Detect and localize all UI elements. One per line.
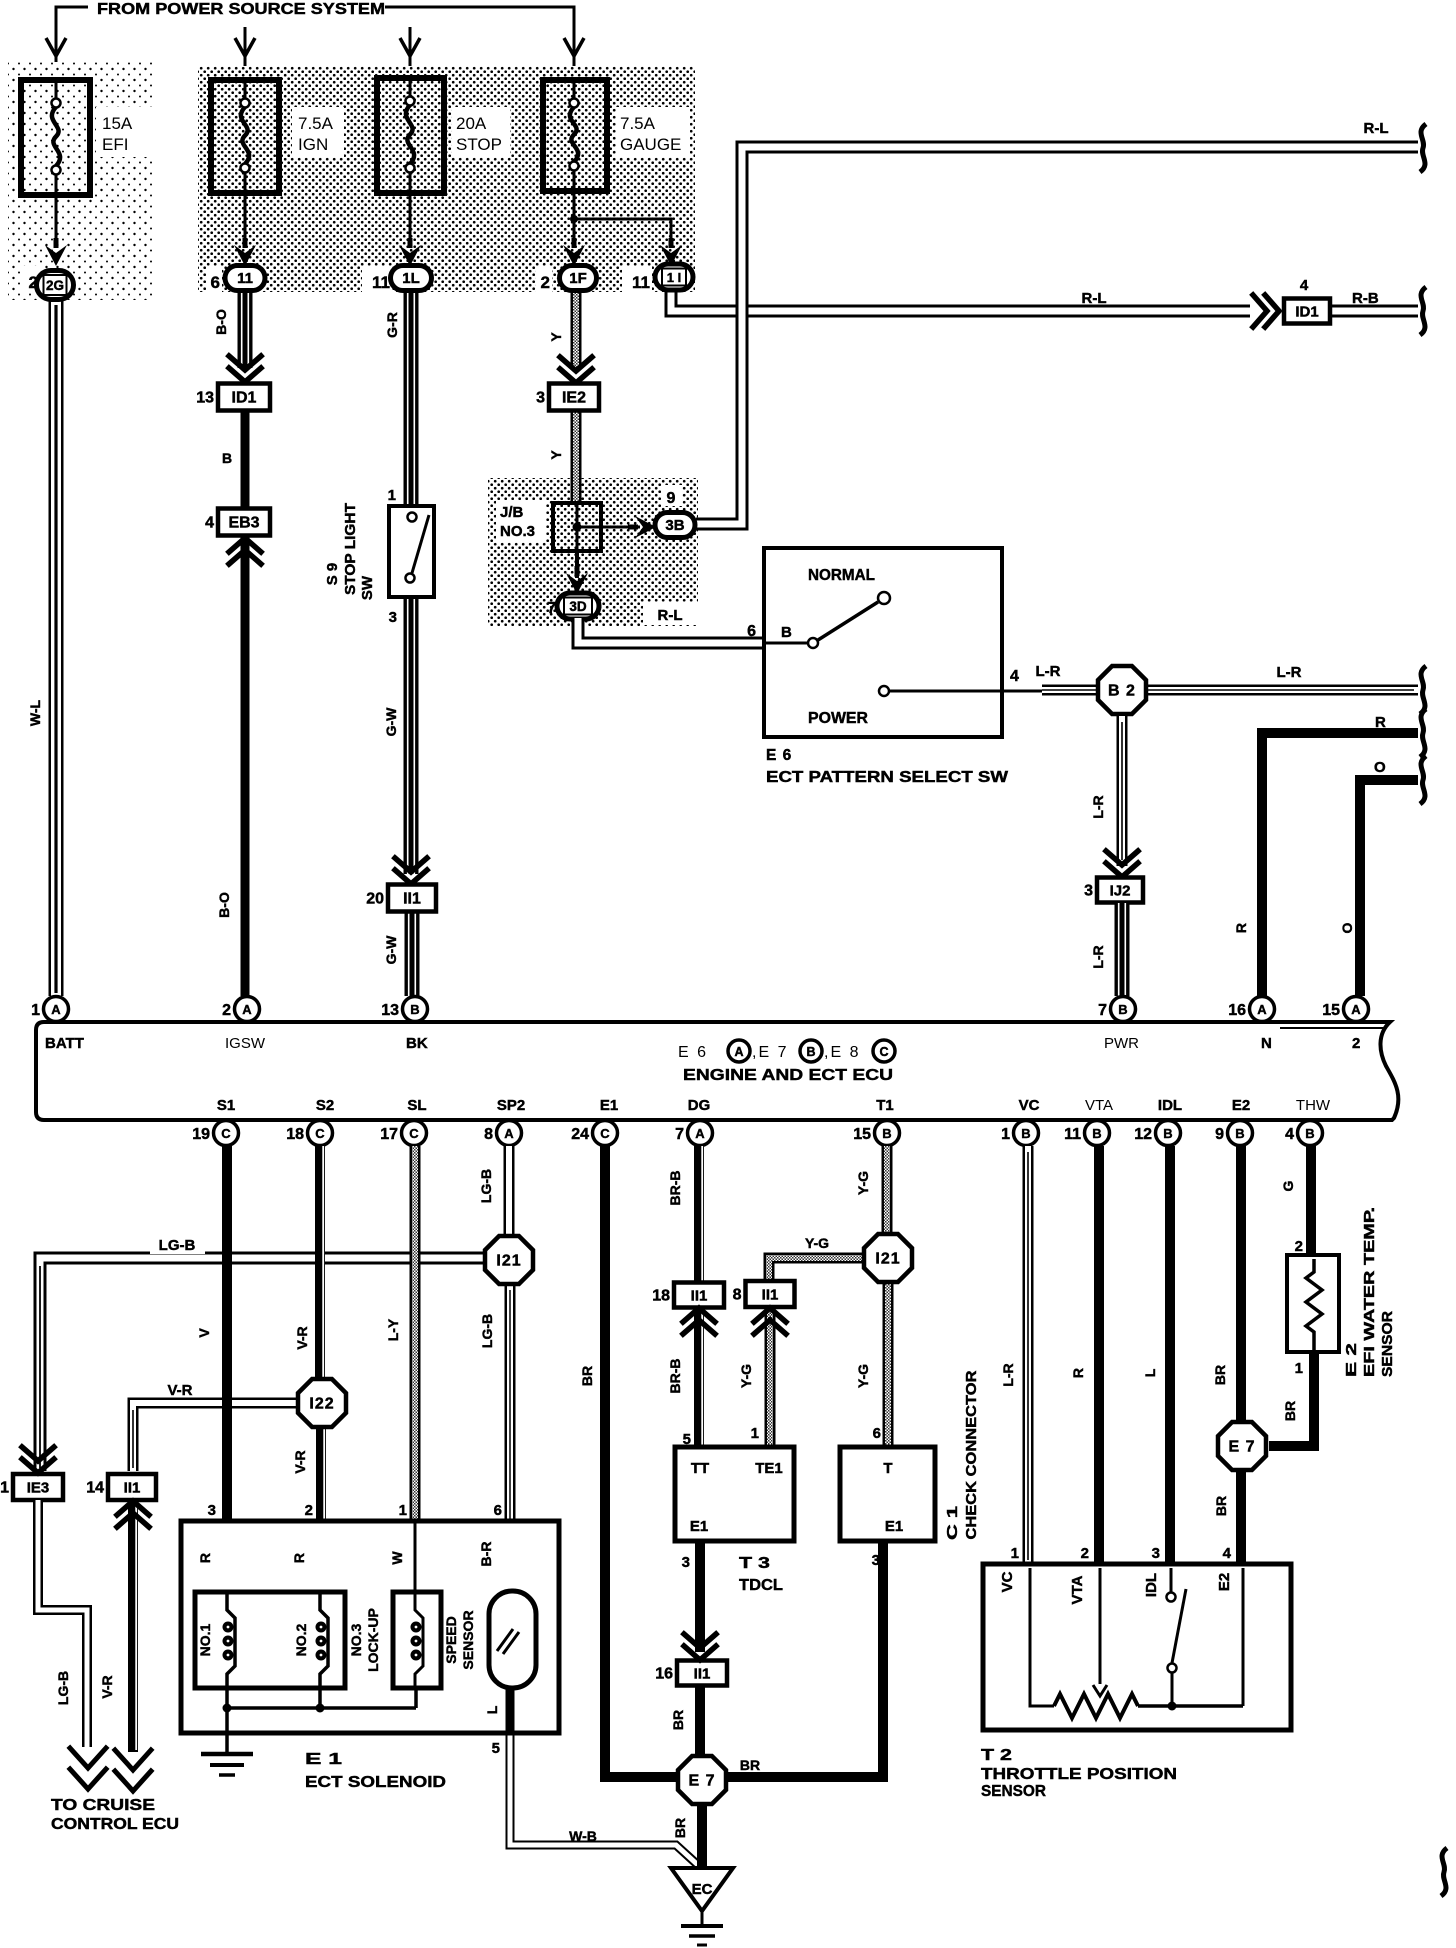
- svg-text:A: A: [734, 1045, 743, 1059]
- svg-text:7: 7: [1098, 1002, 1107, 1019]
- svg-text:B: B: [806, 1045, 815, 1059]
- svg-text:IDL: IDL: [1143, 1573, 1160, 1597]
- svg-text:Y-G: Y-G: [738, 1364, 754, 1388]
- svg-text:B: B: [1235, 1126, 1244, 1141]
- svg-text:B: B: [1163, 1126, 1172, 1141]
- svg-text:V: V: [196, 1328, 212, 1338]
- svg-text:B: B: [222, 450, 232, 466]
- svg-text:4: 4: [205, 515, 214, 532]
- svg-text:7.5A: 7.5A: [620, 114, 656, 133]
- svg-text:S1: S1: [217, 1097, 235, 1114]
- svg-text:IJ2: IJ2: [1110, 883, 1131, 900]
- svg-text:1F: 1F: [569, 270, 587, 287]
- svg-text:4: 4: [1300, 277, 1309, 294]
- svg-text:B-O: B-O: [213, 309, 229, 335]
- svg-text:Y: Y: [548, 450, 564, 460]
- svg-text:O: O: [1339, 922, 1355, 933]
- svg-text:3: 3: [208, 1502, 216, 1519]
- svg-text:LG-B: LG-B: [55, 1671, 71, 1705]
- svg-text:A: A: [504, 1126, 514, 1141]
- svg-text:I21: I21: [496, 1253, 521, 1270]
- svg-text:C: C: [409, 1126, 419, 1141]
- svg-text:NO.3: NO.3: [348, 1623, 364, 1656]
- svg-text:II1: II1: [124, 1480, 141, 1497]
- svg-text:1: 1: [388, 487, 396, 504]
- svg-text:E2: E2: [1232, 1097, 1250, 1114]
- svg-text:18: 18: [652, 1288, 670, 1305]
- svg-text:BR: BR: [1213, 1496, 1229, 1516]
- svg-text:IE2: IE2: [562, 390, 586, 407]
- svg-text:A: A: [1351, 1002, 1361, 1017]
- svg-text:O: O: [1374, 759, 1386, 776]
- svg-text:NORMAL: NORMAL: [808, 567, 875, 584]
- svg-text:1: 1: [399, 1502, 407, 1519]
- svg-text:15: 15: [1322, 1002, 1340, 1019]
- svg-text:BATT: BATT: [45, 1035, 84, 1052]
- svg-text:B: B: [1305, 1126, 1314, 1141]
- svg-text:11: 11: [237, 270, 253, 287]
- svg-text:R-L: R-L: [1364, 120, 1389, 137]
- svg-text:V-R: V-R: [294, 1326, 310, 1349]
- svg-text:11: 11: [632, 273, 650, 292]
- svg-text:II1: II1: [762, 1287, 779, 1304]
- svg-text:VTA: VTA: [1069, 1575, 1086, 1604]
- svg-text:VC: VC: [999, 1571, 1016, 1592]
- svg-text:B: B: [781, 624, 792, 641]
- svg-text:THW: THW: [1296, 1097, 1331, 1114]
- svg-text:L-R: L-R: [1090, 945, 1106, 968]
- svg-text:NO.3: NO.3: [500, 523, 535, 540]
- svg-text:1: 1: [1295, 1360, 1303, 1377]
- svg-text:NO.1: NO.1: [197, 1623, 213, 1656]
- svg-text:16: 16: [1228, 1002, 1246, 1019]
- svg-text:L: L: [484, 1705, 500, 1714]
- svg-text:Y-G: Y-G: [805, 1235, 829, 1251]
- svg-text:B: B: [1092, 1126, 1101, 1141]
- svg-text:EB3: EB3: [228, 515, 259, 532]
- svg-text:T: T: [883, 1460, 892, 1477]
- svg-text:3D: 3D: [569, 599, 587, 614]
- svg-text:6: 6: [873, 1425, 881, 1442]
- svg-text:B 2: B 2: [1108, 683, 1136, 700]
- svg-text:VC: VC: [1019, 1097, 1040, 1114]
- svg-text:ECT PATTERN SELECT SW: ECT PATTERN SELECT SW: [766, 769, 1008, 786]
- svg-text:ID1: ID1: [232, 390, 257, 407]
- svg-text:B: B: [1118, 1002, 1127, 1017]
- svg-text:EFI WATER TEMP.: EFI WATER TEMP.: [1361, 1207, 1378, 1377]
- svg-text:7: 7: [675, 1126, 684, 1143]
- svg-text:3B: 3B: [665, 517, 684, 534]
- svg-text:LG-B: LG-B: [479, 1314, 495, 1348]
- svg-text:2: 2: [1295, 1238, 1303, 1255]
- svg-text:6: 6: [494, 1502, 502, 1519]
- svg-text:19: 19: [192, 1126, 210, 1143]
- svg-text:STOP LIGHT: STOP LIGHT: [342, 503, 359, 595]
- svg-text:E 6: E 6: [766, 747, 792, 764]
- svg-text:GAUGE: GAUGE: [620, 135, 681, 154]
- svg-text:BR: BR: [670, 1710, 686, 1730]
- svg-text:T1: T1: [876, 1097, 894, 1114]
- svg-text:R: R: [1070, 1368, 1086, 1378]
- svg-text:CONTROL ECU: CONTROL ECU: [51, 1816, 179, 1833]
- svg-text:SP2: SP2: [497, 1097, 525, 1114]
- svg-text:S2: S2: [316, 1097, 334, 1114]
- svg-text:8: 8: [733, 1287, 742, 1304]
- svg-text:BR: BR: [672, 1818, 688, 1838]
- svg-text:3: 3: [872, 1552, 880, 1569]
- svg-text:2: 2: [541, 273, 550, 292]
- svg-text:II1: II1: [691, 1288, 708, 1305]
- svg-text:1L: 1L: [402, 270, 420, 287]
- svg-text:G-R: G-R: [384, 312, 400, 338]
- svg-text:S 9: S 9: [324, 563, 341, 586]
- svg-text:A: A: [695, 1126, 705, 1141]
- svg-text:W-B: W-B: [569, 1828, 597, 1844]
- svg-text:SL: SL: [407, 1097, 426, 1114]
- svg-text:11: 11: [372, 273, 390, 292]
- svg-text:3: 3: [682, 1554, 690, 1571]
- svg-text:ECT SOLENOID: ECT SOLENOID: [305, 1774, 446, 1791]
- svg-text:1: 1: [31, 1002, 40, 1019]
- svg-text:1: 1: [0, 1480, 9, 1497]
- svg-text:IGSW: IGSW: [225, 1035, 266, 1052]
- svg-text:17: 17: [380, 1126, 398, 1143]
- svg-text:1: 1: [751, 1425, 759, 1442]
- svg-text:TT: TT: [691, 1460, 709, 1477]
- svg-text:EFI: EFI: [102, 135, 128, 154]
- svg-text:SW: SW: [359, 575, 376, 600]
- svg-text:DG: DG: [688, 1097, 711, 1114]
- svg-text:A: A: [1257, 1002, 1267, 1017]
- svg-text:E2: E2: [1216, 1573, 1233, 1591]
- svg-text:LG-B: LG-B: [159, 1237, 196, 1254]
- svg-text:1 I: 1 I: [667, 270, 681, 285]
- svg-text:E1: E1: [885, 1518, 903, 1535]
- svg-text:T 3: T 3: [739, 1555, 770, 1572]
- svg-text:E 2: E 2: [1343, 1343, 1360, 1377]
- svg-text:6: 6: [211, 273, 220, 292]
- svg-text:W-L: W-L: [27, 699, 43, 726]
- svg-text:7.5A: 7.5A: [298, 114, 334, 133]
- svg-text:J/B: J/B: [500, 504, 524, 521]
- svg-text:ENGINE AND ECT ECU: ENGINE AND ECT ECU: [683, 1067, 893, 1084]
- svg-text:V-R: V-R: [167, 1382, 192, 1399]
- svg-text:4: 4: [1285, 1126, 1294, 1143]
- svg-text:B: B: [882, 1126, 891, 1141]
- svg-text:L-R: L-R: [1000, 1363, 1016, 1386]
- svg-text:II1: II1: [694, 1666, 711, 1683]
- svg-text:B: B: [1021, 1126, 1030, 1141]
- svg-text:9: 9: [667, 490, 676, 507]
- svg-text:L-R: L-R: [1277, 664, 1302, 681]
- svg-text:W: W: [389, 1551, 405, 1565]
- svg-text:C: C: [879, 1045, 888, 1059]
- svg-text:EC: EC: [692, 1881, 713, 1898]
- svg-text:G-W: G-W: [383, 707, 399, 737]
- svg-text:,E 7: ,E 7: [752, 1044, 788, 1061]
- svg-text:ID1: ID1: [1295, 304, 1318, 321]
- svg-text:SENSOR: SENSOR: [1379, 1311, 1396, 1377]
- svg-text:R-B: R-B: [1352, 290, 1379, 307]
- svg-text:LG-B: LG-B: [478, 1169, 494, 1203]
- svg-text:15A: 15A: [102, 114, 133, 133]
- svg-text:BK: BK: [406, 1035, 428, 1052]
- svg-text:14: 14: [86, 1480, 104, 1497]
- svg-text:20A: 20A: [456, 114, 487, 133]
- svg-text:9: 9: [1215, 1126, 1224, 1143]
- svg-text:2: 2: [1081, 1545, 1089, 1562]
- svg-text:IDL: IDL: [1158, 1097, 1182, 1114]
- svg-text:Y-G: Y-G: [855, 1364, 871, 1388]
- svg-text:A: A: [242, 1002, 252, 1017]
- svg-text:13: 13: [196, 390, 214, 407]
- svg-text:IE3: IE3: [27, 1480, 50, 1497]
- svg-text:2: 2: [305, 1502, 313, 1519]
- svg-text:C 1: C 1: [944, 1506, 961, 1540]
- svg-text:NO.2: NO.2: [293, 1623, 309, 1656]
- svg-text:15: 15: [853, 1126, 871, 1143]
- svg-text:R: R: [197, 1553, 213, 1563]
- svg-text:TE1: TE1: [755, 1460, 783, 1477]
- svg-text:3: 3: [389, 609, 397, 626]
- svg-text:Y-G: Y-G: [855, 1171, 871, 1195]
- svg-text:B-R: B-R: [478, 1542, 494, 1567]
- svg-text:SENSOR: SENSOR: [460, 1610, 476, 1669]
- svg-text:3: 3: [1084, 883, 1093, 900]
- svg-text:E 6: E 6: [678, 1044, 708, 1061]
- svg-text:R: R: [291, 1553, 307, 1563]
- svg-text:,E 8: ,E 8: [824, 1044, 860, 1061]
- svg-text:5: 5: [492, 1740, 500, 1757]
- svg-text:BR-B: BR-B: [667, 1359, 683, 1394]
- svg-text:L: L: [1142, 1368, 1158, 1377]
- svg-text:V-R: V-R: [99, 1675, 115, 1698]
- svg-text:4: 4: [1010, 668, 1019, 685]
- svg-text:1: 1: [1011, 1545, 1019, 1562]
- svg-text:A: A: [51, 1002, 61, 1017]
- svg-text:24: 24: [571, 1126, 589, 1143]
- svg-text:PWR: PWR: [1104, 1035, 1139, 1052]
- svg-text:G: G: [1280, 1180, 1296, 1191]
- svg-text:3: 3: [1152, 1545, 1160, 1562]
- svg-text:I22: I22: [309, 1396, 334, 1413]
- svg-text:R: R: [1375, 714, 1386, 731]
- svg-text:R-L: R-L: [658, 607, 683, 624]
- svg-text:C: C: [600, 1126, 610, 1141]
- svg-text:SPEED: SPEED: [443, 1616, 459, 1663]
- svg-text:E 7: E 7: [1228, 1439, 1255, 1456]
- svg-text:B: B: [410, 1002, 419, 1017]
- svg-text:STOP: STOP: [456, 135, 502, 154]
- svg-text:7: 7: [547, 600, 556, 617]
- svg-text:Y: Y: [548, 332, 564, 342]
- svg-text:E1: E1: [690, 1518, 708, 1535]
- svg-text:THROTTLE POSITION: THROTTLE POSITION: [981, 1766, 1177, 1783]
- svg-text:VTA: VTA: [1085, 1097, 1113, 1114]
- svg-text:E 7: E 7: [688, 1773, 715, 1790]
- svg-text:BR-B: BR-B: [667, 1171, 683, 1206]
- svg-text:V-R: V-R: [292, 1450, 308, 1473]
- svg-text:2G: 2G: [46, 278, 64, 293]
- svg-text:E 1: E 1: [305, 1751, 342, 1768]
- svg-text:BR: BR: [740, 1757, 760, 1773]
- svg-text:G-W: G-W: [383, 935, 399, 965]
- svg-text:R-L: R-L: [1082, 290, 1107, 307]
- svg-text:C: C: [315, 1126, 325, 1141]
- svg-text:POWER: POWER: [808, 710, 868, 727]
- svg-text:IGN: IGN: [298, 135, 328, 154]
- svg-text:BR: BR: [1282, 1401, 1298, 1421]
- svg-text:T 2: T 2: [981, 1747, 1012, 1764]
- svg-text:1: 1: [1001, 1126, 1010, 1143]
- svg-text:2: 2: [222, 1002, 231, 1019]
- svg-text:18: 18: [286, 1126, 304, 1143]
- svg-text:L-R: L-R: [1036, 663, 1061, 680]
- svg-text:BR: BR: [579, 1366, 595, 1386]
- svg-text:LOCK-UP: LOCK-UP: [365, 1608, 381, 1672]
- svg-text:6: 6: [747, 623, 756, 640]
- svg-text:12: 12: [1134, 1126, 1152, 1143]
- svg-text:L-R: L-R: [1090, 795, 1106, 818]
- svg-text:N: N: [1261, 1035, 1272, 1052]
- svg-text:TDCL: TDCL: [739, 1577, 783, 1594]
- svg-text:I21: I21: [875, 1251, 900, 1268]
- svg-text:B-O: B-O: [216, 892, 232, 918]
- svg-text:II1: II1: [403, 891, 421, 908]
- svg-text:3: 3: [536, 390, 545, 407]
- svg-text:20: 20: [366, 891, 384, 908]
- svg-text:13: 13: [381, 1002, 399, 1019]
- svg-text:L-Y: L-Y: [385, 1318, 401, 1341]
- svg-text:TO CRUISE: TO CRUISE: [51, 1797, 155, 1814]
- svg-text:FROM POWER SOURCE SYSTEM: FROM POWER SOURCE SYSTEM: [97, 1, 385, 18]
- svg-text:R: R: [1233, 923, 1249, 933]
- svg-text:E1: E1: [600, 1097, 618, 1114]
- svg-text:SENSOR: SENSOR: [981, 1783, 1046, 1800]
- svg-text:BR: BR: [1212, 1365, 1228, 1385]
- svg-text:16: 16: [655, 1666, 673, 1683]
- svg-text:11: 11: [1064, 1126, 1081, 1143]
- svg-text:8: 8: [484, 1126, 493, 1143]
- svg-text:4: 4: [1223, 1545, 1232, 1562]
- svg-text:2: 2: [1352, 1035, 1360, 1052]
- svg-text:CHECK CONNECTOR: CHECK CONNECTOR: [963, 1370, 980, 1539]
- svg-text:C: C: [221, 1126, 231, 1141]
